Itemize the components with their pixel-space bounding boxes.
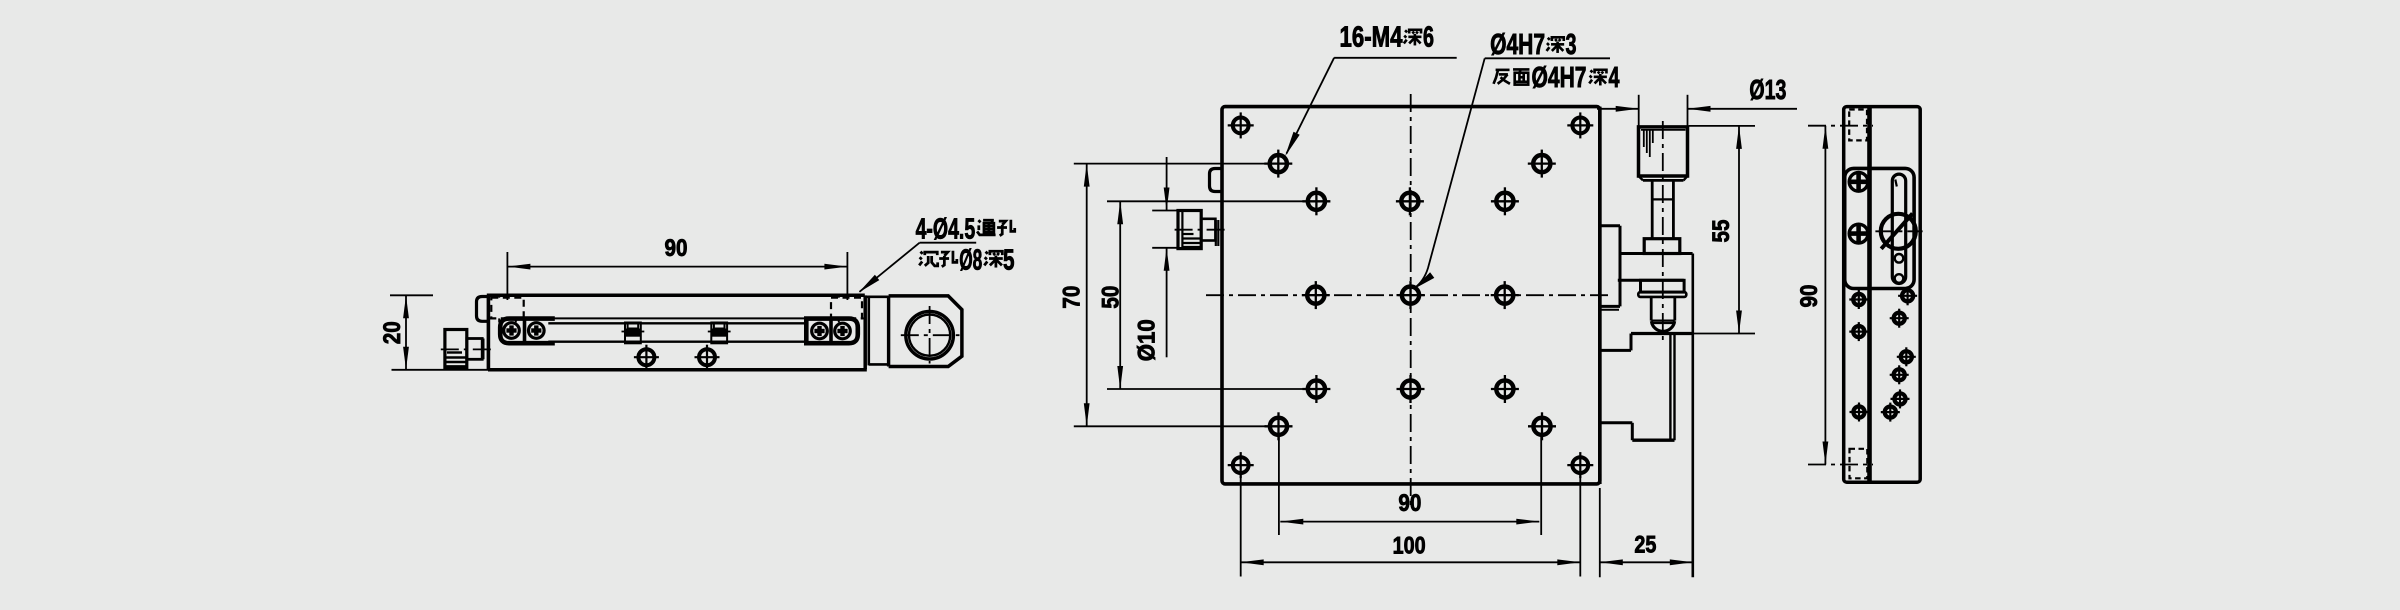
center view: knob knurl line 1 (1182, 233, 1193, 235)
label fan (反) (1494, 70, 1510, 84)
center view: knob knurl line 4 (1182, 246, 1201, 248)
center view: leadscrew boss on plate left edge (1210, 169, 1222, 192)
dim Ø13 extension line left (1638, 95, 1640, 127)
dim 50 arrow down (1117, 366, 1123, 389)
center view: M4 tapped hole 4 (1401, 193, 1418, 210)
left view: left hole hidden line b (515, 318, 517, 322)
left view: mount strip left line (867, 297, 870, 366)
svg-text:70: 70 (1059, 286, 1086, 309)
left view: base hole symbol 2 (699, 349, 715, 365)
dim 70 arrow down (1084, 403, 1090, 426)
dim 50 extension line bottom (1107, 388, 1303, 390)
left view: bore vertical centerline (929, 306, 931, 364)
center view: knob shaft washer b (1217, 220, 1219, 246)
dim 20 dimension line (405, 295, 407, 370)
dim 70 arrow up (1084, 164, 1090, 187)
center view: M4 tapped hole 1 (1270, 155, 1287, 172)
dim 90 bottom dimension line (1280, 521, 1539, 523)
dim 55 extension line top (1689, 125, 1755, 127)
svg-text:5: 5 (1003, 245, 1015, 277)
left view: leadscrew boss on left edge (477, 297, 489, 322)
dim 55 arrow down (1736, 311, 1742, 334)
center view: plate outline (1222, 107, 1600, 484)
dim 25 extension line left (1599, 488, 1601, 577)
micrometer: spindle left (1650, 297, 1653, 321)
micrometer: ball tip (1651, 321, 1674, 331)
micrometer: stem right (1672, 180, 1675, 238)
left view: knurled knob body (445, 330, 467, 369)
left view: knob centerline (441, 348, 493, 350)
micrometer: stem joint line (1652, 198, 1673, 200)
center view: M4 tapped hole 6 (1307, 287, 1324, 304)
svg-text:90: 90 (1398, 490, 1421, 517)
leader Ø4H7 underline (1485, 57, 1610, 59)
left view: right bearing block outline (806, 319, 858, 344)
left view: top plate underside line segment c (862, 317, 865, 319)
center view right: slot edge b (1673, 335, 1675, 440)
bracket arm: bottom surface line (1618, 279, 1684, 282)
dim 70 extension line top (1074, 163, 1266, 165)
center view: M4 tapped hole 10 (1496, 380, 1513, 397)
left view: right counterbore hidden box (831, 298, 862, 319)
right view: side hole symbol 4 (1902, 290, 1913, 301)
left view: rail clamp 1 (625, 323, 641, 344)
dim Ø10 arrow down (1164, 188, 1170, 211)
svg-text:Ø4H7: Ø4H7 (1532, 62, 1587, 94)
center view: knob face line (1181, 211, 1183, 249)
micrometer: stem left (1651, 180, 1654, 238)
dim 90 left extension line a (506, 252, 508, 300)
micrometer: cap outline (1639, 127, 1688, 176)
left view: top plate / base right edge (863, 295, 867, 369)
micrometer: cap top inner line (1641, 129, 1686, 131)
right view: phillips screw 2 (1849, 224, 1868, 243)
left view: knob shaft (467, 339, 482, 360)
dim Ø10 arrow up (1164, 248, 1170, 271)
dim 100 dimension line (1241, 561, 1581, 563)
left view: top plate underside line segment a (488, 317, 491, 319)
leader 16-M4 underline (1334, 57, 1457, 59)
right view: vertical slot (1892, 174, 1905, 283)
center view right: base block right edge (1692, 254, 1695, 578)
right view: slot circle 1 (1895, 254, 1904, 263)
dim 100 extension line a (1240, 474, 1242, 577)
center view: knob knurl line 3 (1182, 242, 1201, 244)
svg-text:25: 25 (1634, 532, 1656, 559)
center view: corner counterbore hole 3 (1233, 457, 1249, 473)
center view right: base surface extension (1693, 333, 1755, 335)
left view: bottom extension line for dim 20 (392, 369, 489, 371)
center view: M4 tapped hole 3 (1308, 193, 1325, 210)
left view: knob knurl line 4 (447, 365, 467, 367)
micrometer: knurl mark 1 (1643, 130, 1645, 147)
dim 90 bottom extension line b (1540, 436, 1542, 535)
center view: corner counterbore hole 2 (1572, 118, 1588, 134)
leader 4-Ø4.5 arrowhead (859, 275, 880, 293)
dim Ø13 arrow right (1616, 106, 1639, 112)
left view: left bearing divider (523, 319, 527, 344)
svg-text:50: 50 (1098, 286, 1125, 309)
micrometer: guide bushing (1641, 280, 1685, 292)
center view: M4 tapped hole 5 (1496, 193, 1513, 210)
dim Ø13 right shaft (1688, 108, 1798, 110)
center view: corner counterbore hole 4 (1572, 457, 1588, 473)
svg-text:90: 90 (1796, 285, 1823, 308)
right view: top counterbore hidden box (1849, 110, 1867, 141)
dim 55 arrow up (1736, 126, 1742, 149)
dim 20 arrow up (403, 295, 409, 318)
svg-text:55: 55 (1708, 220, 1735, 243)
label shen3 (深) (1547, 37, 1565, 53)
dim 90 left arrow right (824, 264, 847, 270)
leader 16-M4 line (1287, 58, 1335, 154)
micrometer: collar (1644, 239, 1680, 254)
dim 70 extension line bottom (1074, 425, 1266, 427)
center view right: plate right edge (1598, 107, 1602, 484)
dim 90 bottom arrow left (1280, 519, 1303, 525)
left view: left hole top tick b (515, 295, 517, 297)
dim 100 arrow left (1241, 559, 1264, 565)
dim 90 left dimension line (507, 266, 847, 268)
leader 16-M4 arrowhead (1285, 132, 1300, 157)
leader 4-Ø4.5 underline (920, 242, 977, 244)
bracket arm: lower step line a (1599, 305, 1620, 308)
right view: outline (1844, 107, 1921, 483)
dim Ø13 left shaft (1597, 108, 1639, 110)
center view: vertical centerline (1410, 94, 1412, 510)
center view right: slot edge a (1669, 335, 1671, 440)
micrometer: bushing lip (1638, 292, 1686, 297)
left view: mount strip bottom line (869, 363, 889, 366)
dim Ø10 lower extension line (1152, 247, 1177, 249)
bracket arm: step top edge (1599, 224, 1620, 227)
center view: M4 tapped hole 8 (1308, 380, 1325, 397)
left view: left bearing screw 2 (527, 321, 546, 340)
label shen4 (深) (1589, 70, 1607, 86)
left view: right hole top tick a (838, 295, 840, 297)
center view right: lower step bottom (1632, 439, 1674, 442)
svg-text:20: 20 (379, 321, 406, 344)
dim 90 left extension line b (846, 252, 848, 300)
dim 90 left arrow left (507, 264, 530, 270)
left view: end block outline (889, 296, 962, 367)
left view: rail bottom edge (548, 341, 807, 343)
right view: knob centerline (1875, 230, 1922, 232)
left view: knob knurl line 1 (447, 351, 462, 353)
left view: body left edge (487, 295, 491, 370)
label kong (孔) (997, 220, 1015, 236)
right view: knob slot diagonal (1881, 214, 1912, 249)
center view: M4 tapped hole 12 (1533, 418, 1550, 435)
leader 4-Ø4.5 line (860, 243, 920, 292)
leader Ø4H7 line (1415, 58, 1485, 288)
dim Ø10 upper shaft (1166, 157, 1168, 211)
micrometer: knurl mark 3 (1649, 130, 1651, 157)
micrometer: spindle right (1673, 297, 1676, 321)
dim 50 arrow up (1117, 201, 1123, 224)
micrometer: axis centerline (1662, 121, 1664, 340)
bracket arm: left vertical (1619, 226, 1622, 307)
right view: slot circle 2 (1895, 274, 1904, 283)
dim Ø13 extension line right (1687, 95, 1689, 127)
left view: top extension line for dim 20 (390, 294, 433, 296)
center view right: base surface line (1631, 332, 1693, 335)
center view: M4 tapped hole 2 (1533, 155, 1550, 172)
left view: right bearing divider (829, 319, 833, 344)
right view: side hole symbol 2 (1853, 326, 1864, 337)
right view: bottom counterbore hidden box (1850, 449, 1868, 479)
right view: slot top tick (1895, 180, 1897, 187)
micrometer: spindle chord a (1651, 320, 1675, 322)
left view: rail clamp 2 (711, 323, 727, 344)
right view: side hole symbol 3 (1853, 406, 1864, 417)
right view: side hole symbol 9 (1885, 407, 1896, 418)
dim Ø10 lower shaft (1166, 248, 1168, 357)
left view: end block bore outer circle (906, 311, 954, 359)
left view: left counterbore hidden box (491, 298, 523, 319)
left view: end block bore inner circle (909, 315, 950, 356)
svg-text:Ø13: Ø13 (1749, 74, 1786, 105)
leader Ø4H7 arrowhead (1413, 272, 1434, 289)
left view: bore horizontal centerline (901, 334, 960, 336)
svg-text:4-Ø4.5: 4-Ø4.5 (916, 213, 976, 245)
micrometer: knurl mark 2 (1646, 130, 1648, 153)
label shen (深) (984, 251, 1002, 267)
micrometer: spindle chord b (1652, 322, 1674, 324)
dim 55 dimension line (1738, 126, 1740, 334)
left view: rail top edge (548, 322, 807, 324)
dim Ø10 upper extension line (1152, 210, 1177, 212)
dim 70 dimension line (1086, 164, 1088, 427)
center view: M4 tapped hole 11 (1270, 418, 1287, 435)
center view: corner counterbore hole 1 (1233, 118, 1249, 134)
micrometer: knurl mark 4 (1652, 130, 1654, 143)
svg-text:16-M4: 16-M4 (1340, 22, 1403, 54)
left view: top plate underside line segment b (524, 317, 831, 319)
right view: top hole centerline (1808, 125, 1873, 127)
center view right: lower step side (1631, 423, 1634, 440)
center view: M4 tapped hole 9 (1402, 380, 1419, 397)
left view: left bearing screw 1 (502, 321, 521, 340)
dim Ø13 arrow left (1688, 106, 1711, 112)
dim 50 extension line top (1107, 200, 1303, 202)
left view: base hole symbol 1 (638, 349, 654, 365)
center view right: lower step top (1600, 421, 1633, 424)
center view: knob knurl line 2 (1182, 237, 1201, 239)
svg-text:100: 100 (1393, 533, 1426, 560)
center view right: base step vertical (1630, 334, 1633, 351)
right view: knob end circle (1881, 214, 1916, 249)
right view: bracket block outline (1845, 168, 1914, 288)
label shen2 (深) (1404, 30, 1422, 46)
svg-text:Ø10: Ø10 (1134, 319, 1161, 361)
label chen (沉) (919, 252, 937, 266)
center view: knob shaft washer a (1215, 220, 1217, 246)
bracket arm: top surface line (1620, 252, 1693, 255)
left view: knob knurl line 2 (447, 356, 467, 358)
right view: side hole symbol 5 (1894, 313, 1905, 324)
label kong2 (孔) (939, 251, 957, 267)
dim 90 right arrow up (1823, 126, 1829, 149)
left view: knob knurl line 3 (447, 361, 467, 363)
right view: side hole symbol 7 (1894, 369, 1905, 380)
left view: knob shaft flange (482, 339, 484, 360)
dim 25 arrow left (1600, 559, 1623, 565)
right view: bottom hole centerline (1808, 464, 1873, 466)
svg-text:6: 6 (1423, 22, 1434, 54)
dim 100 extension line b (1579, 474, 1581, 577)
left view: right bearing screw 1 (810, 322, 829, 341)
left view: body bottom edge (488, 368, 867, 372)
center view: knurled knob body (1178, 211, 1201, 249)
svg-text:Ø8: Ø8 (959, 245, 982, 277)
left view: right bearing screw 2 (833, 322, 852, 341)
right view: phillips screw 1 (1849, 172, 1868, 191)
dim 100 arrow right (1557, 559, 1580, 565)
left view: mount strip right line (887, 296, 890, 367)
label tong (通) (977, 220, 995, 235)
svg-text:90: 90 (665, 235, 688, 262)
left view: top plate top edge (487, 294, 865, 298)
center view: knob centerline (1175, 229, 1226, 231)
svg-text:Ø4H7: Ø4H7 (1490, 29, 1545, 61)
dim 90 bottom arrow right (1516, 519, 1539, 525)
center view: M4 tapped hole 7 (1496, 287, 1513, 304)
dim 90 right dimension line (1824, 126, 1826, 465)
right view: plate/base split line (1867, 108, 1872, 481)
dim 25 dimension line (1600, 561, 1693, 563)
left view: right hole top tick b (854, 295, 856, 297)
center view: knob shaft (1201, 219, 1215, 241)
micrometer: cap bottom lip (1643, 179, 1684, 182)
left view: left bearing block outline (500, 319, 555, 344)
dim 90 bottom extension line a (1278, 436, 1280, 535)
center view: horizontal centerline (1206, 294, 1612, 296)
right view: side hole symbol 1 (1853, 294, 1864, 305)
bracket arm: lower step line b (1599, 309, 1619, 311)
svg-text:4: 4 (1609, 62, 1620, 94)
dim 20 arrow down (403, 347, 409, 370)
left view: left hole hidden line a (498, 318, 500, 322)
left view: mount strip top line (865, 295, 888, 298)
dim 25 arrow right (1670, 559, 1693, 565)
left view: right hole hidden line a (838, 318, 840, 322)
svg-text:3: 3 (1566, 29, 1577, 61)
center view: center pin hole Ø4H7 (1402, 287, 1419, 304)
center view right: base step bottom (1600, 349, 1631, 352)
left view: right hole hidden line b (854, 318, 856, 322)
right view: side hole symbol 6 (1901, 351, 1912, 362)
dim 50 dimension line (1119, 201, 1121, 389)
label mian (面) (1513, 69, 1529, 84)
dim 90 right arrow down (1823, 442, 1829, 465)
right view: side hole symbol 8 (1894, 393, 1905, 404)
left view: left hole top tick a (498, 295, 500, 297)
